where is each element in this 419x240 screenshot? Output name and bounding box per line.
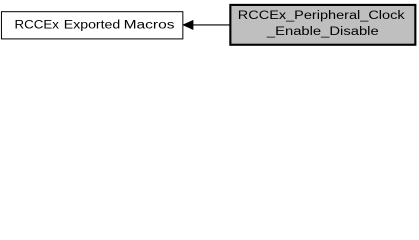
background: [0, 0, 419, 51]
node: RCCEx_Peripheral_Clock_Enable_Disable (box): [230, 5, 415, 45]
edge arrowhead: [183, 21, 193, 30]
svg-text:RCCEx_Peripheral_Clock: RCCEx_Peripheral_Clock: [238, 10, 405, 22]
svg-text:RCCExExportedMacros: RCCExExportedMacros: [15, 20, 175, 32]
svg-text:_Enable_Disable: _Enable_Disable: [266, 26, 379, 38]
edge wire: [193, 24, 231, 26]
node: RCCEx Exported Macros (box): [1, 12, 182, 39]
